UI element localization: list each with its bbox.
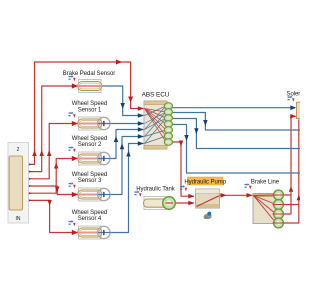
svg-text:Solenoid Valve: Solenoid Valve: [287, 91, 301, 97]
svg-text:Wheel Speed: Wheel Speed: [72, 101, 107, 107]
svg-text:Sensor 4: Sensor 4: [78, 216, 102, 222]
svg-text:Sensor 1: Sensor 1: [78, 107, 102, 113]
svg-text:Brake Pedal Sensor: Brake Pedal Sensor: [63, 71, 116, 77]
svg-text:Sensor 2: Sensor 2: [78, 142, 102, 148]
svg-text:Brake Line: Brake Line: [251, 179, 280, 185]
svg-text:Hydraulic Tank: Hydraulic Tank: [136, 186, 176, 192]
svg-text:IN: IN: [16, 216, 21, 222]
svg-text:2: 2: [17, 147, 20, 153]
svg-text:ABS ECU: ABS ECU: [142, 91, 170, 98]
svg-text:Sensor 3: Sensor 3: [78, 178, 102, 184]
svg-text:Hydraulic Pump: Hydraulic Pump: [184, 180, 226, 186]
svg-text:Wheel Speed: Wheel Speed: [72, 172, 107, 178]
svg-text:Wheel Speed: Wheel Speed: [72, 210, 107, 216]
svg-text:Wheel Speed: Wheel Speed: [72, 136, 107, 142]
